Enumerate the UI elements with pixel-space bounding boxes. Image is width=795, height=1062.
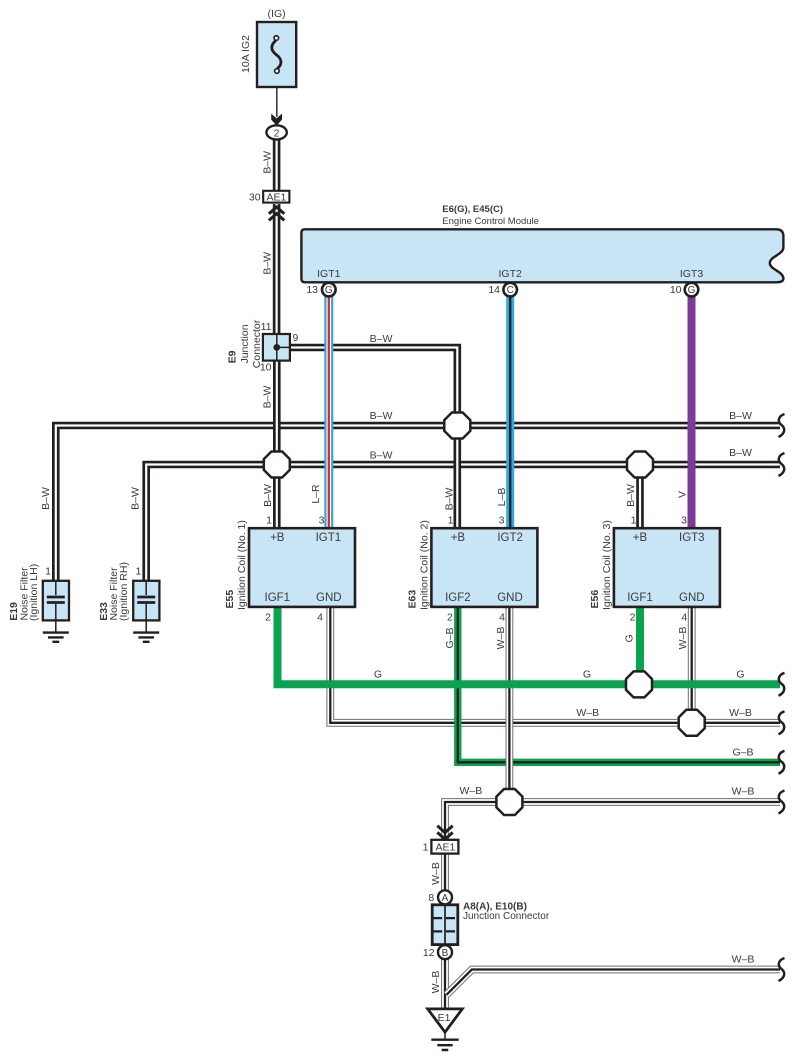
- svg-text:E9: E9: [227, 350, 239, 363]
- svg-text:B–W: B–W: [729, 410, 752, 422]
- svg-text:W–B: W–B: [495, 627, 507, 650]
- wire label B-W AE1 to E9: [262, 252, 274, 275]
- svg-text:IGT2: IGT2: [499, 268, 522, 280]
- fuse 10A IG2 box: [257, 22, 296, 87]
- wire L-B ECM IGT2 to coil2 IGT2: [506, 296, 514, 529]
- svg-text:1: 1: [136, 566, 142, 578]
- wire fuse output (thin): [276, 74, 278, 118]
- ECM pin label IGT1: [317, 268, 340, 280]
- ref label E19 Noise Filter: [8, 564, 40, 621]
- wire W-B AE1 through junction connector to E1: [441, 853, 449, 1009]
- svg-text:E6(G), E45(C): E6(G), E45(C): [442, 204, 503, 215]
- wire W-B coil1 GND to W-B bus: [330, 606, 780, 723]
- pin 9: [293, 332, 299, 344]
- wire labels W-B bus: [576, 707, 752, 719]
- svg-text:E1: E1: [438, 1012, 451, 1024]
- svg-text:Ignition Coil (No. 3): Ignition Coil (No. 3): [601, 520, 613, 610]
- svg-text:IGF1: IGF1: [627, 592, 653, 604]
- svg-text:+B: +B: [270, 532, 285, 544]
- ref label E55 Ignition Coil (No. 1): [224, 520, 248, 610]
- svg-text:Connector: Connector: [251, 319, 263, 368]
- svg-text:W–B: W–B: [732, 785, 755, 797]
- wire G coil1 IGF1 to G bus: [278, 606, 781, 684]
- wire B-W AE1 to E9 pin11: [273, 204, 281, 336]
- wire label B-W E9 pin10 drop: [262, 386, 274, 409]
- wire break mark W-B bus: [779, 711, 785, 734]
- svg-text:GND: GND: [316, 592, 342, 604]
- ECM pin label IGT3: [680, 268, 703, 280]
- svg-text:4: 4: [681, 611, 687, 623]
- svg-text:B–W: B–W: [262, 484, 274, 507]
- svg-text:Junction Connector: Junction Connector: [463, 911, 550, 922]
- wire break mark G bus: [779, 673, 785, 696]
- svg-text:W–B: W–B: [732, 953, 755, 965]
- svg-text:3: 3: [319, 514, 325, 526]
- wire label B-W coil3 +B drop: [625, 484, 637, 507]
- svg-text:B–W: B–W: [262, 252, 274, 275]
- noise filter E33 box with capacitor: [133, 581, 159, 632]
- fuse element symbol: [272, 36, 281, 74]
- coil3 terminal labels: [627, 532, 704, 604]
- wire B-W E9 pin10 to coil1 +B: [273, 359, 281, 529]
- wire break mark bottom W-B bus: [779, 791, 785, 814]
- junction G bus coil3 IGF1: [626, 671, 652, 697]
- wire labels G bus: [374, 669, 745, 681]
- svg-text:IGF2: IGF2: [445, 592, 471, 604]
- wire label W-B coil3 GND: [677, 627, 689, 650]
- wire G-B coil2 IGF2 to G-B bus: [458, 606, 780, 762]
- svg-text:30: 30: [249, 192, 261, 204]
- svg-text:2: 2: [447, 611, 453, 623]
- svg-text:Ignition Coil (No. 2): Ignition Coil (No. 2): [419, 520, 431, 610]
- wire B-W E9 pin9 to coil2 +B: [288, 348, 457, 530]
- wire label L-R: [310, 484, 322, 504]
- svg-text:W–B: W–B: [460, 785, 483, 797]
- ignition coil 3 E56 box: [614, 528, 720, 607]
- junction W-B bus coil3 GND: [679, 710, 705, 736]
- wire B-W connector2 to AE1: [273, 139, 281, 191]
- svg-text:W–B: W–B: [430, 862, 442, 885]
- wire L-R ECM IGT1 to coil1 IGT1: [324, 296, 333, 529]
- svg-text:E55: E55: [224, 590, 236, 609]
- svg-text:W–B: W–B: [729, 707, 752, 719]
- wire W-B coil2 GND to bottom junction: [505, 606, 513, 802]
- wire label B-W coil1 +B drop: [262, 484, 274, 507]
- pin 10: [670, 284, 682, 296]
- noise filter E19 box with capacitor: [43, 581, 69, 632]
- pin 1 E19: [45, 566, 51, 578]
- wire label B-W bus1 right: [729, 410, 752, 422]
- svg-text:G–B: G–B: [444, 627, 456, 648]
- svg-text:1: 1: [266, 514, 272, 526]
- svg-text:B: B: [442, 948, 449, 959]
- male connector chevrons below AE1: [269, 207, 284, 220]
- svg-text:14: 14: [488, 284, 500, 296]
- svg-text:G: G: [688, 285, 696, 296]
- ground symbol E1: [431, 1032, 458, 1050]
- pin 1 E33: [136, 566, 142, 578]
- svg-text:13: 13: [306, 284, 318, 296]
- pin 1 bottom AE1: [423, 842, 429, 854]
- wire label B-W E9 pin9 run: [370, 333, 393, 345]
- wire W-B bottom bus to AE1: [445, 802, 780, 840]
- coil2 terminal labels: [445, 532, 523, 604]
- svg-text:(Ignition LH): (Ignition LH): [28, 564, 40, 621]
- svg-text:2: 2: [274, 127, 280, 139]
- wire label W-B B to E1: [430, 971, 442, 994]
- coil pins bottom row: [265, 611, 687, 623]
- svg-text:10: 10: [670, 284, 682, 296]
- junction bottom W-B bus coil2 GND: [496, 789, 522, 815]
- svg-text:Engine Control Module: Engine Control Module: [442, 216, 539, 227]
- wire label B-W bus2 right: [729, 447, 752, 459]
- svg-text:B–W: B–W: [262, 386, 274, 409]
- connector label AE1 bottom: [435, 842, 455, 854]
- female connector oval 2: [266, 125, 286, 139]
- svg-text:G: G: [374, 669, 382, 681]
- svg-text:2: 2: [265, 611, 271, 623]
- ECM terminal 14 circle C: [503, 283, 517, 297]
- ignition coil 2 E63 box: [431, 528, 537, 607]
- svg-text:1: 1: [448, 514, 454, 526]
- wire labels bottom W-B bus: [460, 785, 755, 797]
- ground symbol E33: [133, 633, 159, 642]
- svg-text:B–W: B–W: [625, 484, 637, 507]
- pin 12: [423, 947, 435, 959]
- arrow from fuse: [271, 114, 282, 126]
- svg-text:4: 4: [499, 611, 505, 623]
- svg-text:4: 4: [317, 611, 323, 623]
- svg-text:B–W: B–W: [129, 487, 141, 510]
- terminal circle B: [438, 945, 452, 959]
- svg-text:AE1: AE1: [435, 842, 455, 854]
- ignition coil 1 E55 box: [249, 528, 355, 607]
- coil1 terminal labels: [265, 532, 342, 604]
- svg-text:B–W: B–W: [370, 410, 393, 422]
- ref label E33 Noise Filter: [98, 562, 130, 621]
- wire B-W bus2 junction to coil3 +B: [636, 465, 644, 530]
- svg-text:Ignition Coil (No. 1): Ignition Coil (No. 1): [236, 520, 248, 610]
- svg-text:B–W: B–W: [40, 487, 52, 510]
- junction bus1 to coil2 +B: [444, 413, 470, 439]
- svg-text:C: C: [507, 285, 514, 296]
- coil pins top row: [266, 514, 687, 526]
- pin 8: [428, 892, 434, 904]
- wire label W-B E1 branch: [732, 953, 755, 965]
- wire label B-W E33 drop: [129, 487, 141, 510]
- wire break mark B-W bus1: [779, 414, 785, 437]
- svg-text:G: G: [736, 669, 744, 681]
- svg-text:+B: +B: [451, 532, 466, 544]
- svg-text:G: G: [325, 285, 333, 296]
- ground symbol E19: [43, 633, 69, 642]
- svg-text:B–W: B–W: [729, 447, 752, 459]
- svg-text:1: 1: [423, 842, 429, 854]
- svg-text:AE1: AE1: [266, 192, 286, 204]
- wire label W-B AE1 to A: [430, 862, 442, 885]
- svg-text:1: 1: [45, 566, 51, 578]
- svg-text:B–W: B–W: [444, 488, 456, 511]
- value label 10A IG2: [240, 35, 252, 73]
- junction bus2 to coil1 +B: [264, 452, 290, 478]
- svg-text:GND: GND: [497, 592, 523, 604]
- svg-text:2: 2: [630, 611, 636, 623]
- ECM E6/E45 box: [301, 229, 783, 282]
- node label 2: [274, 127, 280, 139]
- ECM pin label IGT2: [499, 268, 522, 280]
- svg-text:B–W: B–W: [370, 450, 393, 462]
- terminal circle A: [438, 890, 452, 904]
- wire break mark E1 branch W-B: [779, 958, 785, 981]
- wire B-W bus1 with E19 drop: [56, 426, 780, 581]
- svg-text:+B: +B: [633, 532, 648, 544]
- wire G coil3 IGF1 to G bus junction: [636, 606, 644, 684]
- wire W-B coil3 GND to W-B bus junction: [688, 606, 696, 723]
- wire label B-W bus2 mid: [370, 450, 393, 462]
- wire W-B branch from E1 wire to right: [447, 970, 781, 995]
- connector label AE1 top: [266, 192, 286, 204]
- svg-text:B–W: B–W: [370, 333, 393, 345]
- svg-text:L–R: L–R: [310, 484, 322, 504]
- svg-text:GND: GND: [679, 592, 705, 604]
- wire label L-B: [496, 488, 508, 507]
- wire V ECM IGT3 to coil3 IGT3: [688, 296, 696, 529]
- ref label A8(A), E10(B) Junction Connector: [463, 902, 550, 923]
- svg-text:B–W: B–W: [262, 151, 274, 174]
- svg-text:W–B: W–B: [677, 627, 689, 650]
- male connector chevrons above bottom AE1: [437, 826, 452, 839]
- wire break mark B-W bus2: [779, 453, 785, 476]
- wire label V: [677, 491, 689, 498]
- ground point E1 triangle: [428, 1009, 463, 1032]
- svg-text:9: 9: [293, 332, 299, 344]
- pin 13: [306, 284, 318, 296]
- ref label E9 Junction Connector: [227, 319, 264, 368]
- junction bus2 to coil3 +B: [627, 452, 653, 478]
- pin 14: [488, 284, 500, 296]
- svg-text:12: 12: [423, 947, 435, 959]
- pin 30: [249, 192, 261, 204]
- ground label E1: [438, 1012, 451, 1024]
- ECM terminal 13 circle G: [322, 283, 336, 297]
- junction connector A8/E10 block: [432, 905, 458, 945]
- ref label E63 Ignition Coil (No. 2): [406, 520, 430, 610]
- svg-text:G: G: [624, 634, 636, 642]
- svg-text:1: 1: [631, 514, 637, 526]
- wire label G coil3: [624, 634, 636, 642]
- ref label E56 Ignition Coil (No. 3): [589, 520, 613, 610]
- ECM terminal 10 circle G: [685, 283, 699, 297]
- svg-text:Junction: Junction: [239, 324, 251, 363]
- connector AE1 pin1 box: [431, 840, 458, 854]
- label (IG): [268, 8, 286, 20]
- svg-text:3: 3: [499, 514, 505, 526]
- svg-text:(Ignition RH): (Ignition RH): [118, 562, 130, 621]
- connector AE1 pin30 box: [263, 191, 289, 203]
- svg-text:(IG): (IG): [268, 8, 286, 20]
- svg-text:E63: E63: [406, 590, 418, 609]
- wire B-W bus2 with E33 drop: [146, 465, 780, 581]
- svg-text:IGT2: IGT2: [497, 532, 523, 544]
- svg-text:IGT1: IGT1: [316, 532, 342, 544]
- svg-text:8: 8: [428, 892, 434, 904]
- svg-text:IGT3: IGT3: [679, 532, 705, 544]
- svg-text:L–B: L–B: [496, 488, 508, 507]
- junction connector E9 box: [263, 334, 290, 361]
- wire label G-B coil2: [444, 627, 456, 648]
- svg-text:G–B: G–B: [732, 747, 753, 759]
- svg-text:E56: E56: [589, 590, 601, 609]
- svg-text:W–B: W–B: [576, 707, 599, 719]
- svg-text:W–B: W–B: [430, 971, 442, 994]
- wire label B-W fuse drop: [262, 151, 274, 174]
- svg-text:A: A: [442, 893, 449, 904]
- wire label B-W bus1 mid: [370, 410, 393, 422]
- wire label W-B coil2 GND: [495, 627, 507, 650]
- wire break mark G-B bus: [779, 751, 785, 774]
- svg-text:IGF1: IGF1: [265, 592, 291, 604]
- wire label B-W E19 drop: [40, 487, 52, 510]
- wire label B-W coil2 +B drop: [444, 488, 456, 511]
- svg-text:IGT3: IGT3: [680, 268, 703, 280]
- svg-text:10A IG2: 10A IG2: [240, 35, 252, 73]
- pin 10 E9: [260, 362, 272, 374]
- svg-text:3: 3: [681, 514, 687, 526]
- wire label G-B bus: [732, 747, 753, 759]
- ECM title E6(G), E45(C): [442, 204, 539, 227]
- svg-text:IGT1: IGT1: [317, 268, 340, 280]
- svg-text:V: V: [677, 491, 689, 498]
- pin 11: [261, 321, 272, 333]
- svg-text:G: G: [583, 669, 591, 681]
